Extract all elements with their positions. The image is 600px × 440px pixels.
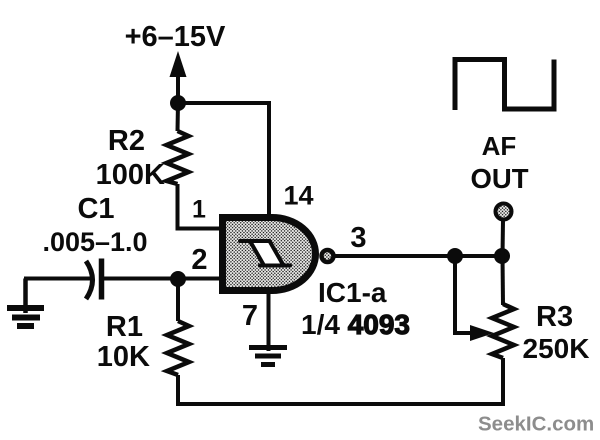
wire: R2 bottom to pin 1 <box>178 184 220 229</box>
svg-text:2: 2 <box>191 244 207 276</box>
svg-text:R2: R2 <box>108 125 145 157</box>
svg-text:.005–1.0: .005–1.0 <box>42 227 147 257</box>
node: wiper junction <box>447 248 463 264</box>
NAND gate IC1-a body <box>223 218 316 291</box>
svg-text:OUT: OUT <box>470 163 528 194</box>
capacitor C1 straight plate <box>99 259 105 300</box>
wire: C1 right plate to gate pin 2 <box>104 277 219 281</box>
svg-text:1/4 4093: 1/4 4093 <box>301 309 410 340</box>
node: output junction <box>494 248 510 264</box>
svg-text:100K: 100K <box>96 159 165 191</box>
ground (pin 7) <box>249 348 287 365</box>
ground (C1 side) <box>7 279 44 327</box>
wire: pin 7 to ground <box>267 292 271 351</box>
svg-text:C1: C1 <box>77 193 114 225</box>
capacitor C1 curved plate <box>86 261 93 299</box>
potentiometer R3 zigzag <box>492 304 514 358</box>
R3 wiper arm <box>455 256 474 333</box>
node: pin 2 junction <box>170 271 186 287</box>
svg-text:IC1-a: IC1-a <box>318 277 387 308</box>
svg-text:AF: AF <box>482 131 517 161</box>
wire: terminal to output node <box>501 220 506 256</box>
square wave icon <box>455 60 554 111</box>
svg-text:R3: R3 <box>536 301 573 333</box>
node: supply junction <box>170 95 186 111</box>
svg-text:3: 3 <box>350 222 366 254</box>
wire: junction to R2 top <box>176 103 181 131</box>
wire: output node down to R3 top <box>501 256 506 305</box>
svg-text:R1: R1 <box>106 311 143 343</box>
wire: R3 bottom, bottom rail, to R1 bottom <box>178 358 503 404</box>
svg-text:+6–15V: +6–15V <box>125 21 226 53</box>
wire: supply junction to pin 14 <box>178 103 269 216</box>
resistor R2 <box>167 131 189 184</box>
svg-text:10K: 10K <box>97 341 150 373</box>
wire: R1 top to pin2 node <box>176 279 180 321</box>
wire: output pin 3 to AF OUT node <box>334 254 502 258</box>
wire: ground to C1 left plate <box>24 277 91 281</box>
R3 wiper arrowhead <box>470 325 494 341</box>
power arrow <box>170 51 187 103</box>
AF OUT terminal <box>496 204 512 220</box>
output bubble <box>322 250 334 262</box>
svg-text:7: 7 <box>242 300 258 332</box>
svg-text:14: 14 <box>283 181 313 211</box>
schmitt trigger hysteresis symbol <box>240 241 290 266</box>
resistor R1 <box>167 321 189 375</box>
svg-text:250K: 250K <box>523 333 590 364</box>
svg-text:1: 1 <box>192 196 206 224</box>
svg-text:SeekIC.com: SeekIC.com <box>478 413 594 436</box>
